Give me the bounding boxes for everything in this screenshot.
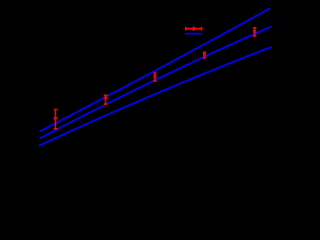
data point 5 error bar [253,28,256,37]
data point 1 error bar [54,110,57,129]
data point 4 error bar [203,52,206,58]
curve upper (blue theory line 1) [40,8,271,131]
curve lower (blue theory line 3) [39,47,272,146]
curve middle (blue theory line 2) [40,26,272,138]
legend data symbol (red error bar sample) [185,27,202,31]
data point 3 error bar [153,73,156,81]
data point 2 error bar [104,95,107,104]
legend curve symbol (blue line sample) [185,33,202,35]
